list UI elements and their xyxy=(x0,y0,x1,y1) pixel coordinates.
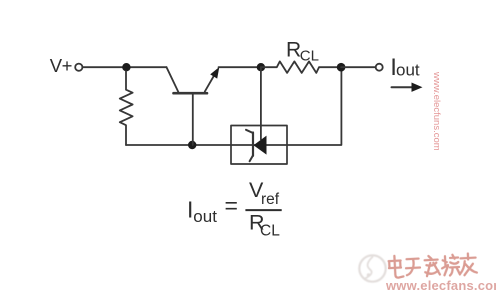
wire cathode from top junction xyxy=(260,67,262,139)
transistor Q1 bar xyxy=(174,92,208,95)
svg-text:V+: V+ xyxy=(50,55,72,76)
watermark logo circle xyxy=(359,255,385,281)
resistor RCL xyxy=(261,61,341,73)
transistor Q1 base wire xyxy=(192,93,194,145)
zener diode D1 triangle xyxy=(254,136,267,155)
arrow Iout direction xyxy=(392,86,414,88)
junction dot B xyxy=(188,141,196,149)
svg-text:www.elecfuns.com: www.elecfuns.com xyxy=(431,71,442,151)
zener diode D1 cathode bar xyxy=(252,133,254,156)
transistor Q1 collector diagonal xyxy=(167,67,179,92)
zener diode D1 top tail xyxy=(246,130,253,133)
reference box xyxy=(231,126,287,165)
junction dot D xyxy=(337,63,346,72)
output terminal xyxy=(376,64,383,71)
zener diode D1 bottom tail xyxy=(250,155,253,161)
wire top rail mid xyxy=(219,66,261,68)
wire bottom rail xyxy=(126,71,341,145)
junction dot A xyxy=(122,63,130,71)
watermark 电子发烧友 strokes xyxy=(388,252,477,280)
transistor Q1 emitter with arrow xyxy=(205,77,214,92)
svg-text:=: = xyxy=(225,193,238,219)
svg-text:CL: CL xyxy=(300,47,319,64)
input terminal xyxy=(75,64,82,71)
svg-text:www.elecfans.com: www.elecfans.com xyxy=(385,278,496,293)
svg-text:CL: CL xyxy=(260,223,280,240)
svg-text:ref: ref xyxy=(261,191,280,208)
svg-text:out: out xyxy=(193,207,217,226)
svg-text:out: out xyxy=(396,60,420,79)
formula Iout = Vref / RCL xyxy=(187,178,282,240)
resistor R1 xyxy=(120,71,133,145)
wire to output xyxy=(341,66,376,68)
wire top rail left xyxy=(83,66,167,68)
junction dot C xyxy=(257,63,265,71)
